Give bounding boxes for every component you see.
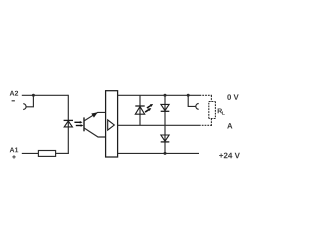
wire stub from junction down to clamp contact	[26, 95, 33, 107]
wire protection diode chain	[164, 95, 166, 153]
clamp contact hook at load terminal (tips flare right)	[196, 104, 199, 110]
light emission arrows of indicator LED	[145, 104, 153, 112]
node dot at load tap	[187, 94, 190, 97]
label RL	[218, 108, 222, 113]
label +24 V	[219, 153, 240, 159]
wire stub from tap down to clamp contact	[188, 95, 196, 106]
light emission arrows of optocoupler	[74, 121, 83, 127]
resistor R input	[38, 151, 55, 157]
node dot bottom of diode chain	[164, 152, 167, 155]
wire vertical riser A2 to A1	[67, 95, 69, 154]
optocoupler LED D1 (triangle pointing up)	[64, 121, 72, 127]
terminal label A2	[10, 91, 18, 96]
wire resistor to riser	[56, 152, 69, 154]
node junction dot on A2 wire	[32, 94, 35, 97]
diode D4 (pointing down)	[161, 135, 169, 141]
label A	[227, 123, 232, 128]
dashed external wire bottom	[201, 119, 212, 126]
phototransistor Q1 emitter lead	[84, 128, 106, 137]
load resistor RL (dashed box)	[209, 102, 216, 119]
wire A1 to resistor	[22, 152, 39, 154]
diode D3 (pointing down)	[161, 104, 169, 110]
optocoupler LED D1 (cathode bar)	[64, 119, 73, 121]
buffer amplifier triangle inside U1	[108, 120, 115, 130]
polarity plus at A1	[12, 155, 15, 158]
node dot top of diode chain	[164, 94, 167, 97]
wire middle output line (A)	[118, 124, 201, 126]
wire A2 horizontal	[22, 94, 69, 96]
wire bottom supply line (+24 V)	[118, 152, 199, 154]
phototransistor Q1 collector lead with arrow	[84, 112, 106, 120]
polarity minus at A2	[12, 100, 15, 102]
wire indicator LED branch	[139, 95, 141, 125]
terminal label A1	[10, 147, 19, 152]
module box U1	[106, 91, 118, 157]
indicator LED D2 triangle pointing up	[135, 107, 144, 115]
clamp contact hook at terminal A2 (tips flare left)	[23, 104, 26, 110]
wire top output line (0 V)	[118, 94, 200, 96]
dashed external wire top	[200, 95, 212, 101]
indicator LED D2 cathode bar	[135, 105, 144, 107]
phototransistor Q1 base bar	[83, 117, 84, 131]
label 0 V	[227, 94, 238, 100]
